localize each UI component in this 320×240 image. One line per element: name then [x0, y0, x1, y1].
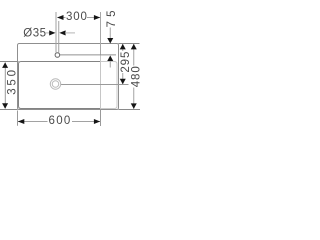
faucet hole right extension line — [58, 21, 60, 53]
dimension 75 lower arrow tail — [109, 61, 111, 67]
diameter 35 left-pointing arrow — [59, 30, 65, 35]
dimension 75 lower arrow — [107, 56, 113, 62]
dimension 295 text — [120, 51, 130, 73]
drain center extension line — [61, 84, 129, 86]
dimension 295 bottom arrow — [120, 79, 126, 85]
svg-text:Ø35: Ø35 — [23, 28, 46, 40]
diameter 35 leader line left — [45, 32, 49, 34]
faucet hole center extension line — [60, 54, 116, 56]
left basin edge extension line for 600 — [17, 111, 19, 126]
dimension 600 right arrow — [94, 119, 100, 124]
dimension 600 left arrow — [18, 119, 25, 124]
basin right edge line x=100 lower segment — [100, 109, 102, 126]
svg-text:480: 480 — [131, 65, 140, 87]
dimension 300 line — [58, 17, 101, 19]
dimension 350 line — [4, 63, 6, 109]
dimension 295 top arrow — [120, 44, 126, 50]
rear edge extension line to right — [119, 43, 140, 45]
bowl inner outline light right part — [101, 62, 118, 109]
bowl inner outline dark left part — [19, 62, 101, 109]
front edge extension line right — [119, 109, 141, 111]
diameter 35 right-pointing arrow — [49, 30, 55, 35]
dimension 600 text — [48, 114, 73, 126]
dimension 480 line — [133, 44, 135, 109]
dimension 350 top arrow — [2, 62, 8, 68]
diameter 35 leader tail right — [65, 32, 75, 34]
dimension 350 bottom arrow — [2, 103, 8, 109]
bowl rear edge extension line left — [0, 61, 19, 63]
washbasin outer rim rectangle — [18, 44, 119, 110]
dimension 600 line — [18, 121, 101, 123]
dimension 300 left arrow — [57, 15, 64, 20]
svg-text:300: 300 — [66, 11, 88, 23]
dimension 480 text — [130, 66, 140, 88]
faucet hole left extension line — [55, 12, 57, 53]
basin right edge line x=100 upper segment — [100, 12, 102, 55]
svg-text:350: 350 — [7, 67, 19, 95]
front edge extension line left — [0, 109, 18, 111]
dimension 300 text — [66, 9, 88, 21]
dimension 75 upper arrow — [107, 38, 113, 44]
drain inner circle — [52, 81, 59, 88]
dimension 75 upper arrow tail — [109, 28, 111, 39]
dimension 480 top arrow — [131, 44, 137, 50]
dimension 295 line — [122, 44, 124, 84]
svg-text:600: 600 — [49, 115, 72, 127]
dimension 300 right arrow — [94, 15, 100, 20]
dimension 480 bottom arrow — [131, 103, 137, 109]
basin right edge line x=100 middle faint segment — [100, 55, 102, 109]
faucet hole circle — [55, 53, 60, 58]
svg-text:75: 75 — [106, 6, 118, 27]
drain outer circle — [50, 79, 60, 89]
